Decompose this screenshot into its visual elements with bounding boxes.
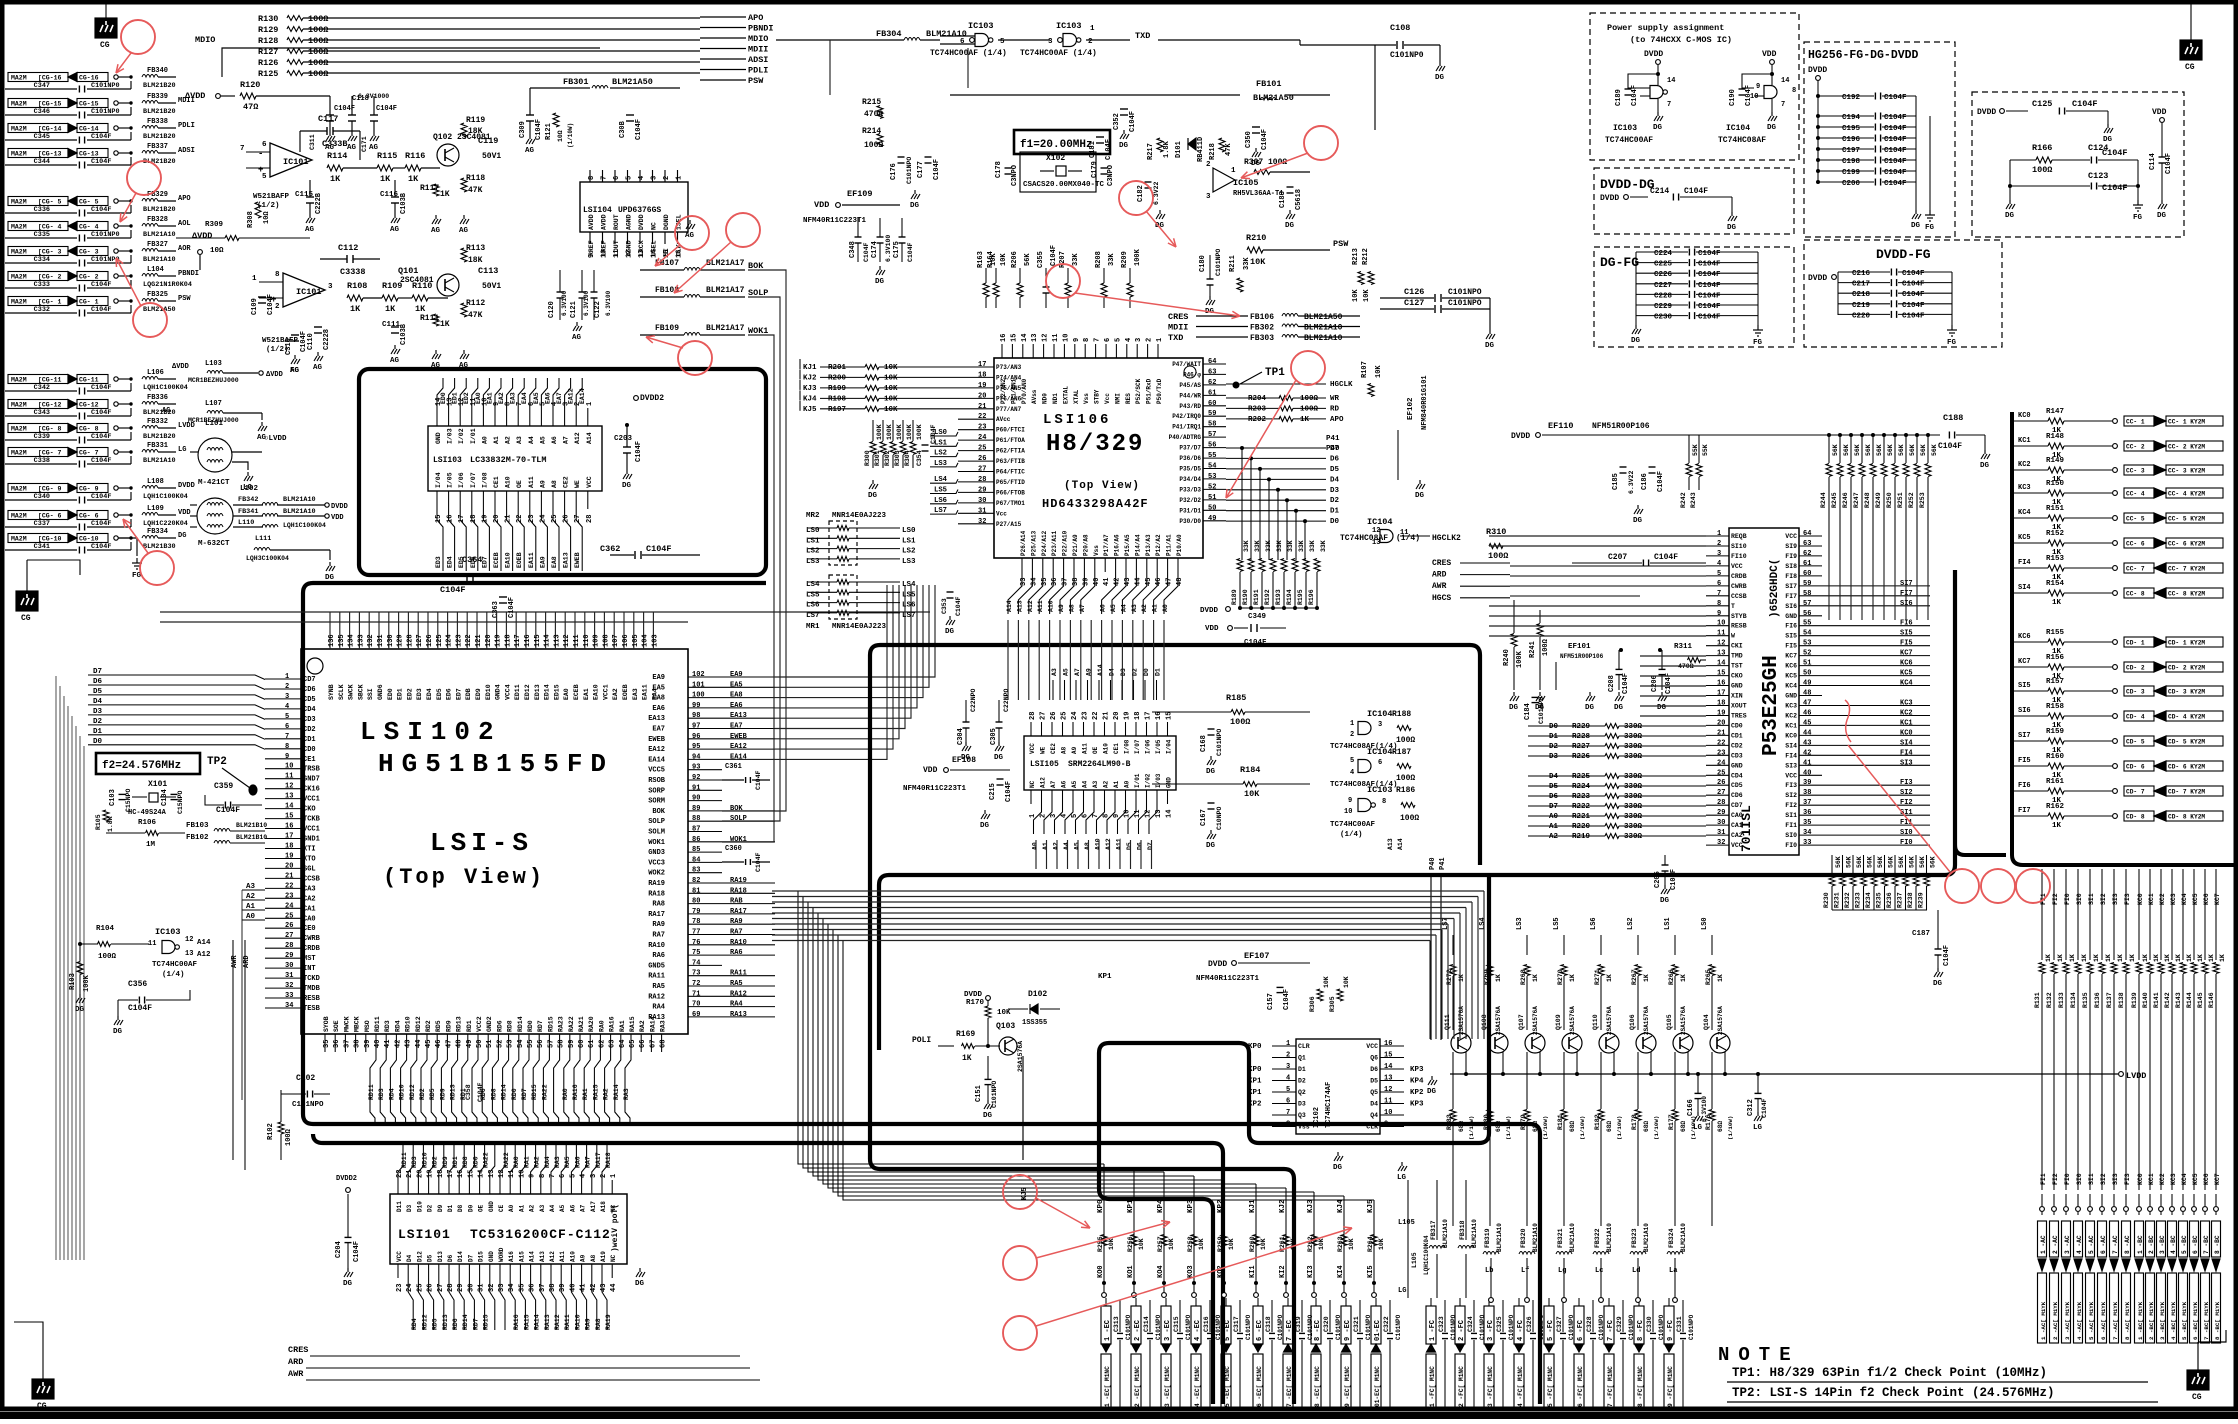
svg-text:TC74HC00AF: TC74HC00AF [1605,136,1653,145]
svg-text:A10: A10 [505,476,512,488]
svg-text:R138: R138 [2118,992,2125,1008]
svg-text:KP2: KP2 [1217,1199,1225,1213]
svg-text:C350: C350 [1245,131,1253,148]
svg-text:HGCLK: HGCLK [1330,381,1353,389]
svg-text:A11: A11 [1082,743,1089,754]
svg-text:1 -BC: 1 -BC [2137,1235,2144,1254]
svg-text:8: 8 [1382,798,1386,806]
svg-text:FB103: FB103 [186,822,209,830]
svg-text:1K: 1K [1680,974,1687,982]
svg-text:SYOB: SYOB [323,1016,330,1032]
svg-text:FB304: FB304 [876,29,902,39]
svg-text:TRES: TRES [1731,713,1747,720]
svg-text:13: 13 [488,1170,496,1178]
svg-text:6: 6 [285,723,289,731]
svg-text:BOK: BOK [730,805,743,813]
svg-text:MDII: MDII [1168,323,1188,333]
svg-text:10: 10 [518,1170,526,1178]
svg-text:DG: DG [983,1112,993,1120]
svg-text:RA9: RA9 [652,921,665,929]
svg-text:NFM40R11C223T1: NFM40R11C223T1 [803,217,867,225]
ferrite bead L108 [142,486,158,489]
svg-text:61: 61 [1208,389,1216,397]
svg-text:C185: C185 [1612,473,1620,490]
svg-text:C198: C198 [1842,158,1861,166]
svg-text:A13: A13 [1016,600,1023,612]
svg-text:ED7: ED7 [481,556,488,568]
svg-text:A0: A0 [1549,813,1559,821]
capacitor C109 C104F [258,296,266,298]
svg-text:CC- 3 KY2M: CC- 3 KY2M [2168,468,2205,475]
capacitor C111 C103B [391,326,399,328]
svg-text:VCC1: VCC1 [602,684,609,700]
svg-text:C166: C166 [1687,1099,1695,1116]
svg-text:P34/D4: P34/D4 [1179,476,1201,483]
svg-text:D6: D6 [1370,1066,1378,1073]
svg-text:A16: A16 [508,1251,515,1262]
svg-text:SI3: SI3 [1900,759,1913,767]
svg-text:CK16: CK16 [303,786,320,794]
svg-text:EA6: EA6 [544,392,551,404]
svg-text:KC1: KC1 [1785,722,1797,729]
svg-text:KC4: KC4 [1900,680,1913,688]
resistor R208 33K [1101,283,1107,297]
svg-text:DG: DG [2005,212,2015,220]
svg-text:DG: DG [1119,142,1129,150]
svg-text:P45/AS: P45/AS [1179,382,1201,389]
svg-text:A1: A1 [1152,604,1159,612]
svg-text:C104F: C104F [91,543,111,551]
svg-text:C104F: C104F [1622,673,1630,694]
svg-text:107: 107 [612,634,620,647]
svg-text:C101NPO: C101NPO [1448,288,1482,297]
svg-text:NC: NC [610,1254,617,1262]
svg-text:13: 13 [1717,650,1725,658]
svg-text:C121: C121 [570,301,578,318]
svg-text:C363: C363 [492,601,500,618]
svg-text:SI4: SI4 [2018,584,2031,592]
svg-text:TESB: TESB [303,1005,321,1013]
svg-text:16: 16 [285,823,293,831]
ferrite bead FB329 [142,199,158,202]
connector column KY1M CB- 6 [2190,1221,2199,1257]
svg-text:KC7: KC7 [2018,658,2031,666]
svg-text:C327: C327 [1556,1316,1563,1332]
svg-text:KO3: KO3 [1187,1265,1195,1278]
svg-text:9: 9 [1756,83,1760,91]
svg-text:10K: 10K [1352,289,1360,302]
svg-text:BLM21A10: BLM21A10 [926,29,967,39]
capacitor C326 [1532,1300,1534,1332]
svg-text:2: 2 [1717,540,1721,548]
transistor Q101 [437,274,459,296]
capacitors C304 C305 C22NPO [963,721,970,723]
LSI102 left pin stubs [265,678,301,680]
svg-text:D101: D101 [1175,141,1183,158]
svg-text:EA2: EA2 [498,392,505,404]
svg-text:BLM21A10: BLM21A10 [1496,1223,1503,1252]
svg-text:4 -EC: 4 -EC [1194,1320,1202,1341]
svg-text:13: 13 [1155,810,1163,818]
svg-text:83: 83 [692,867,700,875]
wire bundle RA RD middle horizontal [772,890,1484,892]
svg-text:2 -FC[ M1NC: 2 -FC[ M1NC [1458,1366,1465,1407]
svg-text:KJ1: KJ1 [803,364,817,372]
svg-text:LS5: LS5 [902,591,916,599]
svg-text:L105: L105 [1398,1219,1415,1227]
svg-text:C305: C305 [990,728,998,745]
svg-text:C189: C189 [1615,89,1623,106]
svg-text:11: 11 [1134,810,1142,818]
svg-text:R169: R169 [956,1030,975,1039]
svg-text:C126: C126 [1404,287,1424,297]
svg-text:R134: R134 [2070,992,2077,1008]
svg-text:GND4: GND4 [495,684,502,700]
svg-text:EA2: EA2 [612,688,619,700]
svg-text:56K: 56K [1920,444,1927,456]
svg-text:KC3: KC3 [2018,484,2031,492]
svg-text:f2=24.576MHz: f2=24.576MHz [102,760,181,772]
svg-text:RD9: RD9 [439,1088,446,1100]
svg-text:R226: R226 [1572,753,1591,761]
svg-text:BLM21B20: BLM21B20 [143,82,176,90]
resistor bank R131-R138 1K [2041,880,2043,960]
svg-text:FI3: FI3 [1785,782,1797,789]
svg-text:68Ω: 68Ω [1495,1121,1502,1132]
svg-text:FB321: FB321 [1557,1228,1564,1248]
svg-text:TC74HC08AF: TC74HC08AF [1340,534,1388,543]
capacitor C345 [5,139,77,141]
svg-text:EF110: EF110 [1548,421,1574,431]
svg-text:18: 18 [1134,712,1142,720]
svg-text:IC103: IC103 [155,927,181,937]
svg-text:R154: R154 [2046,580,2065,588]
svg-text:A10: A10 [1103,743,1110,754]
svg-text:2 -AC[ M1YK: 2 -AC[ M1YK [2052,1301,2059,1340]
svg-text:RREF: RREF [588,240,595,256]
svg-text:D7: D7 [1330,445,1339,453]
svg-text:C101NPO: C101NPO [1216,729,1223,756]
svg-text:FI6: FI6 [1900,620,1913,628]
svg-text:R215: R215 [862,98,881,107]
svg-text:D13: D13 [437,1251,444,1262]
svg-text:5 -BC: 5 -BC [2181,1235,2188,1254]
svg-text:135: 135 [338,634,346,647]
svg-text:7: 7 [240,145,245,153]
svg-text:CG- 5: CG- 5 [79,199,99,206]
svg-text:LG: LG [1397,1174,1407,1182]
ferrite bead FB332 [142,426,158,429]
svg-text:5: 5 [1350,757,1354,765]
svg-text:VCC: VCC [1785,533,1797,540]
svg-text:C104F: C104F [1698,282,1721,290]
svg-text:R208: R208 [1095,251,1103,268]
svg-text:A2: A2 [529,1204,536,1212]
svg-text:C214: C214 [1650,187,1669,196]
svg-text:CD7: CD7 [1731,802,1743,809]
svg-text:6 -AC: 6 -AC [2100,1235,2107,1254]
svg-text:26: 26 [427,1284,435,1292]
svg-text:EA9: EA9 [730,671,743,679]
svg-text:10K: 10K [1244,789,1260,799]
svg-text:DG: DG [325,574,335,582]
svg-text:BLM21A10: BLM21A10 [1643,1223,1650,1252]
svg-text:C195: C195 [1842,125,1861,133]
svg-text:RA3: RA3 [623,1088,630,1100]
svg-text:R198: R198 [828,395,847,403]
svg-text:FB302: FB302 [1250,324,1274,333]
svg-text:8: 8 [588,176,596,180]
svg-text:R199: R199 [828,385,847,393]
svg-text:KC4: KC4 [2018,509,2031,517]
svg-text:330Ω: 330Ω [1624,783,1643,791]
svg-text:C104F: C104F [1884,180,1907,188]
svg-text:A6: A6 [551,436,558,444]
svg-text:DG: DG [1614,704,1624,712]
svg-text:HD6433298A42F: HD6433298A42F [1042,497,1149,511]
svg-text:10K: 10K [1198,1238,1205,1250]
svg-text:77: 77 [692,929,700,937]
svg-text:NFM40R11C223T1: NFM40R11C223T1 [903,785,967,793]
svg-text:Q1: Q1 [1298,1055,1306,1062]
svg-text:C326: C326 [1526,1316,1533,1332]
svg-text:29: 29 [1717,809,1725,817]
svg-text:MA2M: MA2M [11,224,27,231]
svg-text:C151: C151 [975,1085,983,1102]
capacitor C183 C561B [1287,186,1294,188]
svg-text:LQH1C100K04: LQH1C100K04 [143,493,188,501]
svg-text:KP3: KP3 [1187,1199,1195,1213]
svg-text:12: 12 [1717,640,1725,648]
svg-text:DG: DG [1427,1088,1437,1096]
svg-text:C104F: C104F [300,331,308,352]
svg-text:78: 78 [692,918,700,926]
svg-text:49: 49 [1803,680,1811,688]
capacitor C308 [626,114,634,116]
svg-text:FB342: FB342 [238,496,258,504]
svg-text:A0: A0 [1124,780,1131,788]
svg-text:VCC: VCC [1731,563,1743,570]
svg-text:2SA1576A: 2SA1576A [1569,1006,1576,1035]
svg-text:P37/D7: P37/D7 [1179,445,1201,452]
svg-text:C186: C186 [1641,473,1649,490]
svg-text:DVDD: DVDD [331,503,348,511]
svg-text:Q101: Q101 [398,266,418,276]
svg-text:23: 23 [978,424,986,432]
svg-text:LQH1C220K04: LQH1C220K04 [143,520,188,528]
svg-text:C167: C167 [1200,809,1208,826]
svg-text:20: 20 [1113,712,1121,720]
connector CG- 3 [8,247,68,256]
svg-text:DG: DG [2157,212,2167,220]
svg-text:70: 70 [692,1001,700,1009]
svg-text:28: 28 [1029,712,1037,720]
svg-text:130: 130 [387,634,395,647]
svg-text:MWCK: MWCK [343,1016,350,1032]
svg-text:I/05: I/05 [447,472,454,488]
svg-text:1K: 1K [2081,954,2088,962]
svg-text:RD3: RD3 [411,1156,418,1168]
svg-text:NFM51R00P106: NFM51R00P106 [1560,653,1604,660]
svg-text:FI6: FI6 [2018,782,2031,790]
svg-text:CD- 1: CD- 1 [2126,640,2145,647]
svg-text:110: 110 [583,634,591,647]
svg-text:CC- 2: CC- 2 [2126,444,2145,451]
svg-text:3 -AC[ M1YK: 3 -AC[ M1YK [2064,1301,2071,1340]
svg-text:IC103: IC103 [1613,124,1637,133]
svg-text:CLK: CLK [1366,1124,1378,1131]
svg-text:CC- 1 KY2M: CC- 1 KY2M [2168,419,2205,426]
svg-text:24: 24 [1717,759,1725,767]
svg-text:KC1: KC1 [2148,893,2155,905]
svg-text:MA2M: MA2M [11,274,27,281]
svg-text:MA2M: MA2M [11,450,27,457]
svg-text:[CG- 6: [CG- 6 [38,513,62,520]
svg-text:7: 7 [1781,101,1785,109]
svg-text:R204: R204 [1248,395,1267,403]
svg-text:Q104: Q104 [1703,1014,1710,1030]
svg-text:A4: A4 [1120,604,1127,612]
svg-text:7 -AC: 7 -AC [2112,1235,2119,1254]
svg-text:2 -FC: 2 -FC [1458,1320,1466,1341]
svg-text:Q4: Q4 [1370,1112,1378,1119]
wires 56K bank to LSI107 pins [1828,560,1830,620]
svg-text:100K: 100K [876,424,883,440]
connector column CN1M CF- 9 [1664,1306,1674,1344]
svg-text:R158: R158 [2046,703,2065,711]
svg-text:55: 55 [527,1040,535,1048]
resistor bank 33K R189-R196 [1237,559,1243,572]
svg-text:A5: A5 [559,1204,566,1212]
svg-text:8: 8 [1792,87,1796,95]
svg-text:2SC4081: 2SC4081 [400,276,434,285]
svg-text:RD6: RD6 [480,1088,487,1100]
svg-text:1 -FC[ M1NC: 1 -FC[ M1NC [1429,1366,1436,1407]
svg-text:CA3: CA3 [303,885,316,893]
svg-text:136: 136 [328,634,336,647]
svg-text:56K: 56K [1865,444,1872,456]
svg-text:47Ω: 47Ω [243,102,258,112]
svg-text:A14: A14 [1397,838,1404,850]
svg-text:RD0: RD0 [511,1088,518,1100]
svg-text:AVcc: AVcc [996,416,1011,423]
svg-text:R251: R251 [1897,492,1904,508]
svg-text:CG-10: CG-10 [79,536,99,543]
capacitor C314 [1149,1300,1151,1332]
svg-text:R137: R137 [2106,992,2113,1008]
svg-text:L108: L108 [147,478,164,486]
svg-text:KC4: KC4 [1785,683,1797,690]
svg-text:C222B: C222B [315,192,323,214]
svg-text:6: 6 [1286,1098,1290,1106]
svg-text:7: 7 [601,176,609,180]
svg-text:RA6: RA6 [652,952,665,960]
svg-text:P63/FTIB: P63/FTIB [996,458,1025,465]
svg-text:ARD: ARD [1432,571,1447,580]
svg-text:C342: C342 [34,384,50,392]
svg-text:KC0: KC0 [2018,412,2031,420]
svg-text:[CG- 8: [CG- 8 [38,426,62,433]
svg-text:R252: R252 [1908,492,1915,508]
svg-text:FB319: FB319 [1484,1228,1491,1248]
svg-text:C353: C353 [941,598,948,614]
LSI105 bottom fan labels [1034,804,1042,834]
svg-text:C312: C312 [1747,1099,1755,1116]
svg-text:CA0: CA0 [1731,812,1743,819]
svg-text:1K: 1K [2129,954,2136,962]
svg-text:C10NPO: C10NPO [1216,806,1223,830]
svg-text:C181: C181 [1089,141,1097,158]
svg-text:RA17: RA17 [648,911,665,919]
svg-text:KI2: KI2 [1279,1265,1287,1278]
svg-text:26: 26 [1050,712,1058,720]
svg-text:55K: 55K [1702,444,1709,456]
wire MDIO [222,48,600,77]
capacitor C332 [5,312,77,314]
red circles near LSI107 [1945,869,1979,903]
svg-text:C104F: C104F [646,544,672,554]
svg-text:BLM21A10: BLM21A10 [143,256,176,264]
svg-text:C218: C218 [1852,291,1871,299]
svg-text:100Ω: 100Ω [2032,165,2052,175]
svg-text:C344: C344 [34,158,50,166]
svg-text:C3NPO: C3NPO [1107,165,1115,186]
svg-text:R249: R249 [1875,492,1882,508]
svg-text:1.8K: 1.8K [1163,140,1171,158]
svg-text:TC74HC08AF: TC74HC08AF [1718,136,1766,145]
svg-text:93: 93 [692,764,700,772]
svg-text:FI3: FI3 [2124,1173,2131,1185]
resistor R218 47K [1219,138,1225,152]
svg-text:17: 17 [1717,690,1725,698]
svg-text:RA20: RA20 [588,1016,595,1032]
ferrite bead FB325 [142,299,158,302]
svg-text:11: 11 [1717,630,1725,638]
svg-text:17: 17 [285,833,293,841]
svg-text:104: 104 [642,634,650,647]
svg-text:C104F: C104F [91,158,111,166]
svg-text:C101NP0: C101NP0 [91,82,120,90]
svg-text:RA16: RA16 [572,1084,579,1100]
svg-text:WOK1: WOK1 [648,839,665,847]
svg-text:SSI: SSI [367,688,374,700]
svg-text:C200: C200 [1842,180,1861,188]
svg-text:100K: 100K [1516,650,1524,668]
svg-text:40: 40 [569,1284,577,1292]
ferrite bead FB337 [142,151,158,154]
svg-text:SOLP: SOLP [648,818,665,826]
svg-text:CC- 4 KY2M: CC- 4 KY2M [2168,491,2205,498]
svg-text:GND2: GND2 [486,1016,493,1032]
svg-text:C104F: C104F [376,105,397,113]
svg-text:C104F: C104F [2102,183,2128,193]
svg-text:C104F: C104F [907,242,914,262]
svg-text:KC5: KC5 [2192,893,2199,905]
svg-text:A12: A12 [197,951,211,959]
svg-text:BLM21A10: BLM21A10 [283,508,316,516]
connector column KY1M CB- 2 [2146,1221,2155,1257]
svg-text:1K: 1K [2142,954,2149,962]
svg-text:FI6: FI6 [1785,623,1797,630]
svg-text:SOLM: SOLM [648,829,665,837]
svg-text:EF109: EF109 [847,189,873,199]
svg-text:6.3V1000: 6.3V1000 [358,93,389,100]
svg-text:A3: A3 [539,1204,546,1212]
svg-text:VCC: VCC [396,1251,403,1262]
svg-text:C104F: C104F [535,119,543,140]
box DVDD-FG [1804,240,2002,347]
svg-text:RA5: RA5 [730,980,743,988]
